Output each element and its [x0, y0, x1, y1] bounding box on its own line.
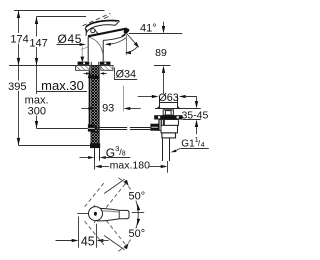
- svg-text:300: 300: [28, 106, 46, 118]
- svg-text:45: 45: [81, 235, 95, 249]
- svg-text:max.30: max.30: [41, 78, 84, 93]
- svg-text:Ø63: Ø63: [158, 92, 178, 104]
- svg-text:8: 8: [122, 150, 126, 157]
- svg-text:Ø34: Ø34: [116, 68, 136, 80]
- svg-text:max.: max.: [25, 94, 49, 106]
- svg-text:89: 89: [155, 47, 167, 59]
- svg-text:4: 4: [201, 142, 205, 149]
- svg-text:max.180: max.180: [110, 160, 150, 172]
- svg-text:35-45: 35-45: [181, 110, 208, 122]
- svg-text:395: 395: [8, 81, 26, 93]
- svg-text:93: 93: [102, 103, 114, 115]
- svg-text:147: 147: [29, 37, 47, 49]
- svg-text:G: G: [106, 146, 115, 160]
- svg-text:41°: 41°: [140, 23, 157, 35]
- svg-text:174: 174: [10, 34, 28, 46]
- svg-text:50°: 50°: [128, 191, 145, 203]
- svg-text:50°: 50°: [128, 228, 145, 240]
